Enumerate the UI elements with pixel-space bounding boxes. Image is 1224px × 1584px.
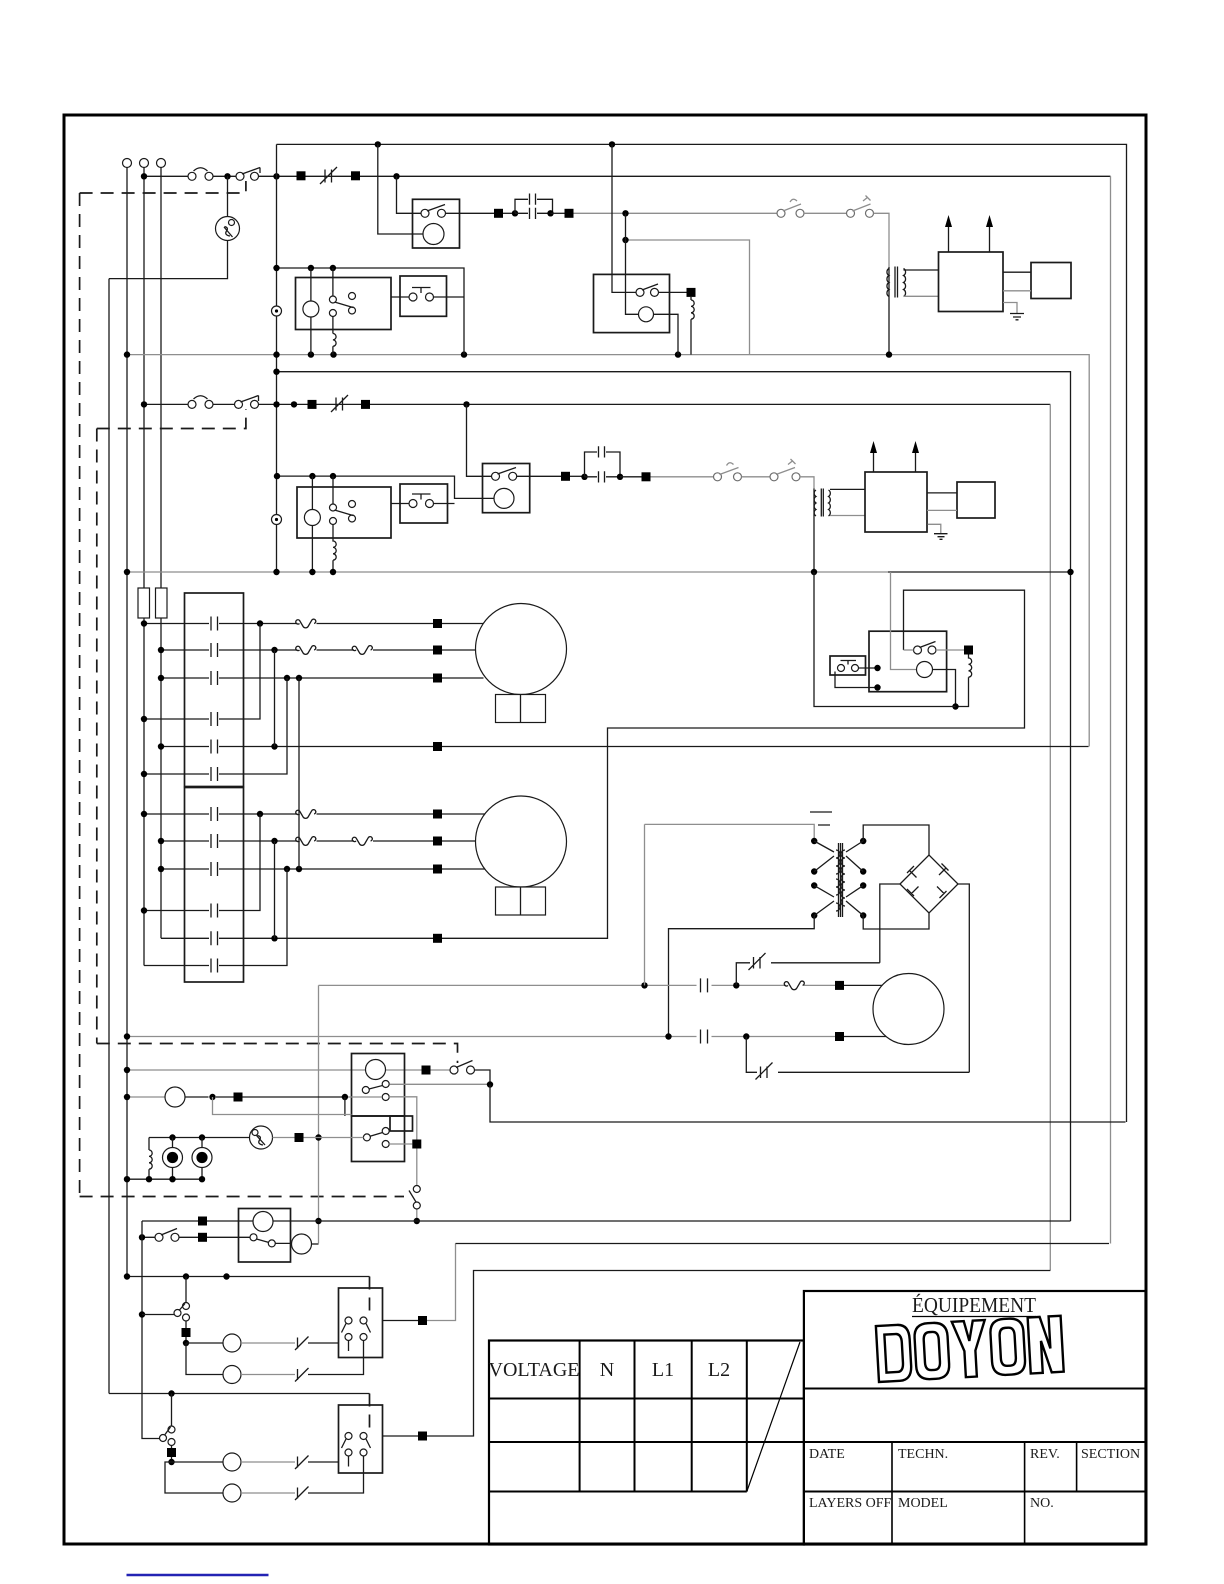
svg-text:NO.: NO. <box>1030 1496 1054 1511</box>
title block lines <box>804 1389 1146 1492</box>
terminal strip TB2 <box>185 788 244 983</box>
heater H2 vent arrows <box>874 452 916 472</box>
breaker contact line 2 <box>746 1037 969 1073</box>
node <box>375 141 381 147</box>
thermostat T3 <box>714 473 722 481</box>
relay RA contacts <box>345 1317 352 1324</box>
timer feed wire <box>127 1069 422 1071</box>
row K wire <box>161 590 1025 938</box>
bridge right connection <box>958 884 969 1072</box>
dashed link H4 <box>80 1196 404 1198</box>
blower contacts <box>250 1234 257 1241</box>
motor3 <box>873 974 944 1045</box>
timer lower switch output <box>389 1143 412 1145</box>
wire to transformer TL <box>645 824 815 841</box>
heater box H1 <box>939 252 1004 312</box>
contactor M2 box <box>297 487 391 538</box>
door switch S2 <box>235 400 243 408</box>
breaker contact B2 <box>308 400 317 409</box>
relay KR return to bus2 <box>814 572 956 707</box>
row E riser <box>274 650 276 747</box>
blower box <box>239 1209 291 1263</box>
node <box>609 141 615 147</box>
relay KR switch <box>914 646 922 654</box>
relay RB output <box>383 1435 419 1437</box>
ground G1 <box>1003 303 1017 314</box>
breaker B1 symbol <box>320 167 337 184</box>
relay box RA <box>339 1288 383 1358</box>
selector switch SA <box>185 1277 187 1303</box>
circuit1 bottom bus <box>127 355 1089 747</box>
blue reference line <box>127 1574 269 1576</box>
timer coil rect <box>390 1116 413 1131</box>
rotary switch SW2 <box>250 1126 273 1149</box>
wire via interlock switch S4 <box>389 1097 417 1221</box>
transformer TR3 windings <box>836 850 840 911</box>
lamp LB1 <box>172 1461 224 1463</box>
wire y240 return <box>626 240 750 355</box>
svg-text:VOLTAGE: VOLTAGE <box>489 1359 580 1381</box>
door switch S3 <box>422 1066 431 1075</box>
relay K2 switch <box>636 288 644 296</box>
rectifier bridge D1-D4 <box>900 855 958 913</box>
supply terminal L1 <box>123 159 132 168</box>
lamp LA2 <box>186 1343 223 1375</box>
capacitor pair C2 <box>581 474 587 480</box>
fuse FA terminals <box>188 172 196 180</box>
voltage table <box>489 1341 804 1545</box>
relay KR heater coil <box>956 655 972 707</box>
relay K3 coil <box>494 488 514 508</box>
heater H1 aux box <box>1031 263 1071 299</box>
contactor M2 contacts <box>332 476 334 538</box>
motor MT2 <box>476 796 567 887</box>
main lower control line y1221 <box>142 1220 1071 1222</box>
wire circuit1 control line y144 <box>277 144 1127 1122</box>
riser x142 <box>142 1221 162 1439</box>
contactor M2 coil path <box>311 476 313 572</box>
supply terminal L3 <box>157 159 166 168</box>
timer switch lower <box>363 1134 370 1141</box>
motor3 lower supply (gray bus B) <box>127 1036 835 1038</box>
indicator feed rail <box>149 1137 250 1139</box>
relay K3 switch <box>492 472 500 480</box>
transformer TR2 primary return <box>813 514 815 572</box>
indicator lamp LP1 <box>109 176 228 1393</box>
pushbutton PB1 box <box>400 276 447 316</box>
pushbutton PBR wires <box>835 668 878 688</box>
fuse F2 <box>156 588 168 618</box>
heater H2 aux box <box>957 482 995 518</box>
relay K3 feed <box>467 404 492 476</box>
aux contact wire <box>390 1083 491 1085</box>
row K riser <box>274 841 276 938</box>
bridge bottom connection <box>863 913 929 929</box>
thermostat T2 <box>847 209 855 217</box>
relay U1 box <box>413 199 460 248</box>
contactor M2 overload coil <box>333 538 336 572</box>
inductor coil <box>149 1138 152 1180</box>
pushbutton PB1 wires <box>391 296 464 298</box>
svg-text:DATE: DATE <box>809 1447 845 1462</box>
relay U1 feed <box>397 176 422 213</box>
relay KR box <box>869 631 947 692</box>
svg-text:SECTION: SECTION <box>1081 1447 1140 1462</box>
wire corner x276.5 <box>276 144 278 572</box>
fuse FA arc <box>194 168 208 171</box>
relay K2 feed <box>612 144 636 292</box>
relay K2 coil circle <box>639 307 654 322</box>
riser from bus A to lower section <box>318 985 320 1243</box>
circuit2 bottom bus <box>127 571 888 573</box>
node relay3 drop <box>463 401 469 407</box>
bridge top connection <box>863 825 929 855</box>
lamp LP2 line <box>127 1096 165 1098</box>
wire from cap line down <box>644 824 646 985</box>
timer box upper <box>352 1054 405 1117</box>
diagonal <box>747 1342 800 1492</box>
timer box lower <box>352 1116 405 1162</box>
transformer TR3 winding links <box>814 841 863 916</box>
relay U1 switch <box>421 209 429 217</box>
supply terminal L2 <box>140 159 149 168</box>
transformer TR1 <box>888 267 890 295</box>
lamp LB2 <box>165 1462 223 1493</box>
wire phase N bus x127 <box>126 168 128 1277</box>
relay U1 coil feed from control line <box>378 144 423 234</box>
thermostat T1 <box>777 209 785 217</box>
relay K2 heater coil <box>691 297 694 355</box>
circuitB top line <box>109 1393 370 1395</box>
row B wire <box>161 649 476 651</box>
breaker contact line 1 <box>736 963 880 986</box>
relay RA output <box>383 1320 419 1322</box>
svg-text:TECHN.: TECHN. <box>898 1447 948 1462</box>
blower motor <box>253 1212 273 1232</box>
contactor M1 top wire <box>277 268 465 355</box>
dashed link H1 <box>80 181 246 193</box>
indicator return rail <box>127 1178 202 1180</box>
wire to control line K126 <box>490 1085 1126 1123</box>
transformer TR3 terminals left <box>811 838 817 844</box>
row A wire <box>144 623 484 625</box>
door switch S1 <box>236 172 244 180</box>
wire to thermostats (gray) <box>574 212 778 214</box>
transformer TR2 <box>813 489 815 515</box>
relay K2 output <box>659 291 687 293</box>
riser x299 <box>298 678 300 869</box>
row D wire <box>144 624 260 720</box>
overload <box>784 981 804 990</box>
circuit2 aux line y476 <box>277 476 494 498</box>
row F wire <box>144 678 287 774</box>
circuit2 top control line <box>277 372 1071 1221</box>
relay K2 box <box>594 274 670 332</box>
relay box RB <box>339 1405 383 1473</box>
svg-text:ÉQUIPEMENT: ÉQUIPEMENT <box>912 1293 1036 1317</box>
breaker contact B1 squares <box>297 171 306 180</box>
heater H1 vent arrows <box>949 226 990 252</box>
transformer TR1 primary return to bus <box>888 295 890 355</box>
contactor M1 coil path <box>310 268 312 355</box>
border frame <box>64 115 1146 1544</box>
transformer TR3 core <box>839 843 843 917</box>
contactor M1 aux terminal <box>272 306 282 316</box>
DOYON logo <box>876 1316 1064 1382</box>
circuit2 input line <box>144 403 1050 405</box>
row G wire <box>144 813 485 815</box>
capacitor C3 <box>701 978 708 992</box>
contactor M2 aux terminal <box>272 515 282 525</box>
capacitor pair C1 <box>512 210 518 216</box>
relay K3 output <box>517 475 561 477</box>
svg-text:MODEL: MODEL <box>898 1496 948 1511</box>
relay U1 output wire <box>446 212 495 214</box>
timer motor <box>366 1060 386 1080</box>
row H wire <box>161 840 476 842</box>
title block frame <box>804 1291 1146 1545</box>
dashed mechanical link vertical A <box>79 193 81 1197</box>
node on phase x144 <box>141 173 147 179</box>
row J wire <box>144 814 260 911</box>
wire circuit1 input line <box>144 175 1111 177</box>
node lamp tap <box>224 173 230 179</box>
polarity bars <box>810 812 832 825</box>
node x276.5 <box>273 173 279 179</box>
branch to lower timer box <box>213 1097 352 1115</box>
bridge left connection to breaker <box>880 884 900 963</box>
motor3 upper supply (gray bus A) <box>319 984 836 986</box>
wire to thermostats circuit2 <box>651 476 714 478</box>
transformer TR3 terminals right <box>860 838 866 844</box>
lamp LA1 <box>186 1342 223 1344</box>
svg-text:REV.: REV. <box>1030 1447 1060 1462</box>
contactor M1 contacts <box>332 268 334 334</box>
node cap to relay2 coil <box>622 210 628 216</box>
wire phase bus x144 <box>143 168 145 966</box>
wire phase bus x161 <box>160 168 162 939</box>
relay KR coil return <box>933 670 956 707</box>
terminal strip TB1 <box>185 593 244 787</box>
ground G2 <box>928 524 941 533</box>
fuse F1 <box>138 588 150 618</box>
svg-text:L2: L2 <box>708 1359 730 1381</box>
indicator IN2 <box>201 1138 203 1180</box>
thermostat T4 <box>770 473 778 481</box>
heater box H2 <box>865 472 927 532</box>
motor MT1 <box>476 604 567 695</box>
contactor M1 box <box>296 278 392 330</box>
capacitor C4 <box>701 1030 708 1044</box>
pushbutton PB2 box <box>400 484 448 523</box>
fuse FB arc <box>194 396 208 399</box>
timer switch upper <box>362 1087 369 1094</box>
feed line from x1109 <box>456 1243 1110 1245</box>
svg-text:L1: L1 <box>652 1359 674 1381</box>
svg-text:LAYERS OFF: LAYERS OFF <box>809 1496 892 1511</box>
aux circle <box>292 1234 312 1254</box>
blower switch line <box>142 1236 250 1238</box>
dashed link H3 <box>97 1044 458 1064</box>
relay KR coil feed from bus <box>891 572 917 670</box>
circuitA top line <box>127 1276 370 1278</box>
relay K3 box <box>483 464 530 513</box>
row E wire <box>161 746 1089 748</box>
dashed mechanical link vertical B <box>96 429 98 1044</box>
dashed link H2 <box>97 409 246 429</box>
pushbutton PBR box <box>830 656 866 675</box>
relay U1 coil <box>423 224 444 245</box>
contactor M1 overload coil <box>333 334 336 355</box>
selector switch SB <box>171 1394 173 1426</box>
relay KR coil <box>917 662 933 678</box>
svg-text:N: N <box>600 1359 614 1381</box>
transformer bottom return <box>669 916 815 1037</box>
row C wire <box>161 677 484 679</box>
relay RB contacts <box>345 1433 352 1440</box>
row I wire <box>161 868 485 870</box>
row L wire <box>144 869 287 966</box>
relay KR output <box>936 649 964 651</box>
node relay1 drop <box>393 173 399 179</box>
indicator IN1 <box>172 1138 174 1180</box>
